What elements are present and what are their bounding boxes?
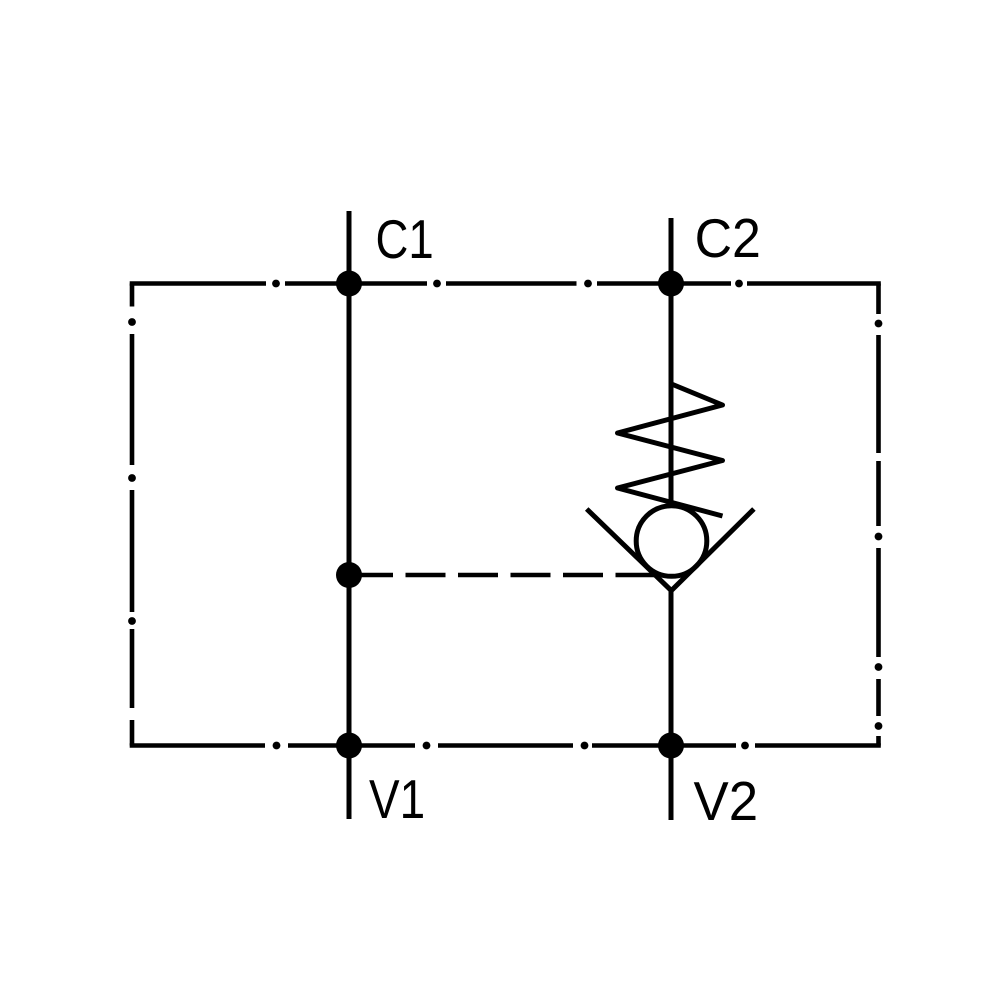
junction node V2 <box>658 733 684 759</box>
valve body boundary top side (dash-dot) <box>130 280 881 288</box>
check valve CV1 ball <box>636 506 707 577</box>
junction node C2 <box>658 271 684 297</box>
svg-text:C1: C1 <box>376 208 434 270</box>
valve body boundary left side (dash-dot) <box>128 284 136 746</box>
wire C2 upper vertical line <box>669 218 674 506</box>
wire V2 lower vertical line <box>669 589 674 820</box>
svg-text:V1: V1 <box>369 768 425 830</box>
junction node pilot tap <box>336 562 362 588</box>
junction node C1 <box>336 271 362 297</box>
valve body boundary bottom side (dash-dot) <box>130 742 881 750</box>
valve body boundary right side (dash-dot) <box>875 284 883 746</box>
pilot line (dashed) from junction to check valve <box>353 573 655 578</box>
svg-text:C2: C2 <box>695 207 761 269</box>
check valve CV1 seat <box>587 509 754 591</box>
check valve CV1 spring <box>618 384 723 516</box>
junction node V1 <box>336 733 362 759</box>
wire C1-V1 vertical line <box>347 211 352 819</box>
svg-text:V2: V2 <box>694 770 759 832</box>
